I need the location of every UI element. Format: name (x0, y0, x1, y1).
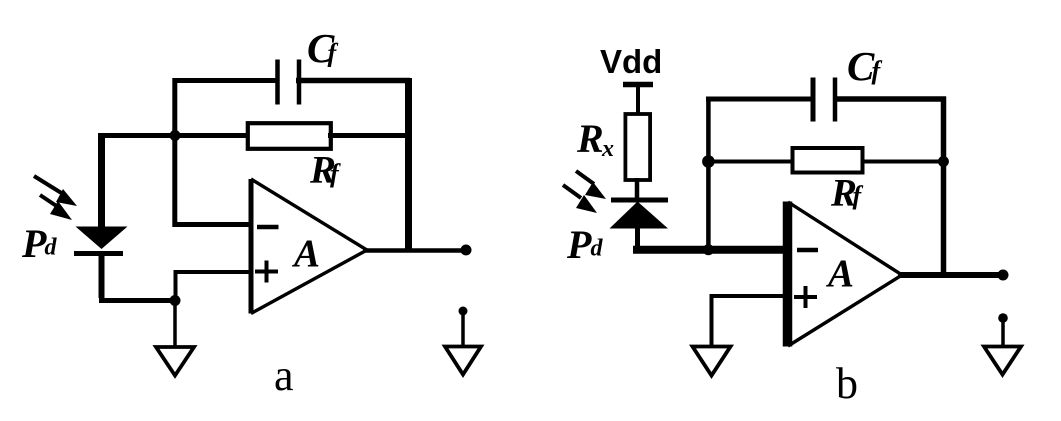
wire: inverting input (from feedback vertical to op-amp) (173, 222, 251, 227)
svg-text:d: d (591, 236, 604, 262)
wire: output (circuit a) (363, 248, 464, 253)
svg-text:x: x (601, 136, 614, 162)
svg-text:a: a (274, 351, 294, 400)
wire: photodiode anode vertical (98, 133, 105, 228)
ground symbol (circuit b output) (984, 347, 1021, 375)
resistor Rf (circuit a) (248, 123, 331, 149)
photodiode Pd cathode bar (circuit b) (611, 198, 668, 203)
capacitor C1 left plate (275, 60, 280, 105)
node: output ground terminal dot (circuit a) (459, 307, 468, 316)
wire: top feedback (Cf branch) right segment (circuit b) (836, 96, 946, 102)
wire: left feedback vertical (circuit b) (706, 97, 711, 254)
op-amp minus sign (circuit b) (797, 248, 818, 253)
photodiode Pd triangle (circuit a) (76, 227, 128, 250)
op-amp A (circuit a) (251, 179, 367, 314)
photodiode Pd cathode bar (circuit a) (74, 251, 123, 256)
wire: Rf branch right segment (328, 133, 410, 138)
resistor Rx (625, 114, 650, 180)
svg-text:d: d (45, 235, 58, 261)
op-amp plus sign (circuit b) (794, 286, 817, 308)
wire: Rf branch right segment (circuit b) (862, 160, 946, 164)
wire: top feedback (Cf branch) left segment (circuit b) (706, 97, 812, 102)
resistor Rf (circuit b) (793, 148, 863, 173)
wire: Rf branch left segment (circuit b) (707, 160, 794, 164)
svg-text:P: P (566, 222, 592, 267)
svg-text:Vdd: Vdd (600, 43, 662, 80)
ground symbol (circuit a left) (156, 347, 194, 376)
photodiode Pd triangle (circuit b) (610, 202, 669, 229)
node: output terminal dot (circuit a) (461, 245, 472, 256)
node: output ground terminal dot (circuit b) (998, 313, 1008, 323)
node: junction Rf branch right (circuit b) (938, 156, 949, 167)
wire: non-inverting input with corner down to ground (circuit b) (712, 296, 788, 345)
node: junction of feedback and photodiode branch (170, 130, 181, 141)
wire: Vdd to Rx (636, 85, 640, 114)
node: junction input wire (circuit b) (703, 244, 714, 255)
wire: Rx to photodiode (635, 178, 640, 200)
wire: output (circuit b) (898, 272, 1001, 278)
wire: output ground stem (circuit b) (1001, 319, 1005, 347)
wire: right vertical (circuit b) (941, 97, 947, 278)
op-amp minus sign (circuit a) (257, 225, 279, 230)
wire: thick input wire to op-amp (circuit b) (633, 246, 788, 254)
wire: top feedback (Cf branch) left segment (175, 81, 276, 228)
wire: non-inverting input with corner down to ground node (176, 272, 252, 300)
node: ground junction (circuit a) (170, 295, 181, 306)
wire: right vertical from Cf branch to output (405, 78, 412, 253)
light arrows into photodiode Pd (circuit b) (563, 171, 606, 213)
node: output terminal dot (circuit b) (998, 270, 1009, 281)
ground symbol (circuit a output) (445, 347, 481, 375)
wire: photodiode cathode vertical (99, 254, 105, 299)
svg-text:b: b (836, 359, 858, 408)
op-amp A (circuit b) (788, 202, 903, 347)
wire: ground stem (circuit a) (173, 300, 177, 347)
power rail Vdd T-bar (623, 82, 653, 88)
svg-text:A: A (291, 232, 320, 275)
wire: output ground stem (circuit a) (461, 311, 465, 347)
capacitor Cf right plate (circuit b) (833, 78, 838, 122)
op-amp plus sign (circuit a) (255, 261, 278, 283)
wire: top feedback (Cf branch) right segment (296, 78, 410, 84)
wire: Rf branch left segment (photodiode to resistor) (99, 133, 249, 138)
svg-text:A: A (825, 252, 854, 295)
node: junction Rf branch left (circuit b) (702, 155, 715, 168)
svg-text:R: R (576, 116, 604, 161)
ground symbol (circuit b left) (693, 347, 731, 376)
light arrows into photodiode Pd (circuit a) (34, 176, 77, 220)
capacitor Cf left plate (circuit b) (811, 78, 816, 122)
capacitor C1 right plate (297, 60, 302, 105)
wire: photodiode anode vertical (circuit b) (635, 228, 640, 252)
svg-text:P: P (21, 221, 47, 266)
wire: bottom horizontal to ground node (99, 298, 175, 303)
